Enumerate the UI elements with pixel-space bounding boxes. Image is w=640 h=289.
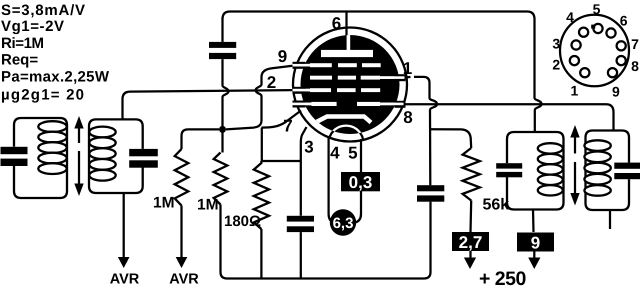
wire: pin 6 anode lead — [345, 12, 347, 41]
svg-text:Ri=1M: Ri=1M — [1, 35, 44, 52]
socket pin 3 hole — [572, 40, 581, 49]
wire: pin 5 heater lead — [355, 139, 361, 223]
wire: C4 to ground rail — [300, 232, 302, 278]
resistor R2 1M — [214, 153, 228, 205]
wire: branch to 56k — [430, 129, 471, 148]
svg-text:4: 4 — [330, 144, 340, 163]
anode plate (white) — [321, 50, 373, 57]
wire: cathode horizontal — [262, 160, 301, 162]
wire: T2 primary bottom to 9 box — [532, 210, 535, 233]
transformer T2 secondary tank box — [586, 131, 630, 211]
svg-text:0,3: 0,3 — [349, 173, 373, 192]
grid g2 row — [310, 76, 332, 80]
socket pin 2 hole — [570, 56, 579, 65]
svg-text:7: 7 — [631, 36, 639, 52]
svg-text:2,7: 2,7 — [459, 233, 483, 252]
pin number labels around tube — [267, 14, 413, 163]
socket pin 1 hole — [580, 68, 589, 77]
wire: T2 secondary output stub — [609, 210, 611, 229]
svg-text:1: 1 — [403, 59, 412, 78]
voltage circle 6,3 — [330, 209, 356, 235]
wire: pin 3 lead — [301, 127, 307, 216]
socket pin 6 hole — [606, 28, 615, 37]
wire: pin 4 heater lead — [329, 138, 334, 223]
wire: continues below C3, hops g1 wire — [223, 59, 229, 152]
junction node dot — [219, 126, 226, 133]
svg-text:Vg1=-2V: Vg1=-2V — [1, 18, 64, 35]
svg-text:S=3,8mA/V: S=3,8mA/V — [1, 2, 85, 19]
svg-text:6: 6 — [620, 13, 628, 29]
socket pin 4 hole — [579, 28, 588, 37]
cathode (white hat) — [312, 117, 372, 125]
wire: branch from dot to R1 — [182, 129, 220, 149]
svg-text:2: 2 — [552, 57, 560, 73]
svg-text:3: 3 — [552, 36, 560, 52]
transformer T1 secondary tank box — [89, 119, 143, 193]
svg-text:180Ω: 180Ω — [224, 213, 261, 230]
grid g3 row — [310, 63, 332, 67]
svg-text:6,3: 6,3 — [333, 215, 354, 232]
wire: pin 1 dashed lead — [406, 76, 415, 79]
svg-text:Req=: Req= — [1, 51, 38, 68]
lead collars through envelope ring — [293, 62, 306, 69]
svg-text:56k: 56k — [483, 197, 510, 214]
wire: bottom ground rail — [227, 202, 431, 279]
svg-text:3: 3 — [304, 138, 313, 157]
resistor R3 180 ohm — [254, 161, 269, 229]
transformer T1 primary tank box — [14, 118, 67, 198]
coil L1 (T1 primary) — [38, 121, 66, 132]
svg-text:4: 4 — [566, 9, 574, 25]
spec text block — [1, 2, 110, 103]
wire: vertical line from top rail (x=222.5) — [221, 18, 223, 42]
heater circle — [329, 126, 364, 161]
capacitor C1 (T1 primary tuning) — [1, 147, 28, 154]
AVR arrow (right) — [176, 257, 188, 268]
svg-text:µg2g1= 20: µg2g1= 20 — [1, 87, 84, 104]
variable coupling arrow (T2) — [574, 136, 576, 154]
svg-text:7: 7 — [283, 117, 292, 136]
coil L2 (T1 secondary) — [89, 127, 115, 138]
socket pin 9 hole — [608, 68, 617, 77]
capacitor C2 (T1 secondary tuning) — [129, 149, 158, 156]
wire: R2 bottom to ground rail — [221, 205, 228, 279]
svg-text:AVR: AVR — [110, 272, 140, 288]
coil L3 (T2 primary) — [538, 143, 563, 153]
socket pin 7 hole — [617, 41, 626, 50]
wire: R1 to AVR arrow — [180, 206, 182, 258]
socket pin 8 hole — [617, 56, 626, 65]
coil L4 (T2 secondary) — [584, 140, 610, 151]
AVR arrow (left) — [118, 257, 130, 268]
tube V1 envelope — [293, 28, 407, 142]
current box 0,3 — [341, 172, 380, 191]
svg-text:5: 5 — [593, 1, 601, 17]
current box 9 — [517, 233, 554, 252]
socket pin 5 hole — [593, 24, 602, 33]
svg-text:1M: 1M — [197, 197, 219, 214]
current box 2,7 — [452, 232, 489, 251]
svg-text:9: 9 — [278, 47, 287, 66]
capacitor C6 (T2 primary tuning) — [496, 163, 522, 168]
svg-text:Pa=max.2,25W: Pa=max.2,25W — [1, 69, 110, 86]
socket index pip — [591, 25, 595, 29]
wire: pin 1 down, hops pin-8 wire — [414, 77, 437, 185]
svg-text:6: 6 — [332, 14, 341, 33]
wire: pin 8 long horizontal to output secondary — [403, 104, 614, 130]
resistor R1 1M — [175, 149, 189, 206]
arrow below 9 — [533, 252, 535, 259]
svg-text:+ 250: + 250 — [479, 268, 526, 289]
svg-text:2: 2 — [267, 73, 276, 92]
arrow below 2,7 — [469, 251, 471, 258]
svg-text:9: 9 — [531, 234, 540, 253]
wire: R3 bottom to ground rail — [260, 229, 262, 279]
capacitor C4 (cathode bypass) — [287, 216, 314, 222]
svg-text:1: 1 — [571, 83, 579, 99]
wire: AVR tap from T1 secondary bottom — [123, 193, 125, 258]
beam/shield row — [311, 102, 336, 106]
wire: top anode rail — [223, 12, 542, 133]
wire: pin 9 stub down, hops g1 wire, to node dot — [226, 65, 303, 130]
svg-text:8: 8 — [631, 58, 639, 74]
grid g1 row — [310, 88, 331, 92]
wire: R4 to 2,7 box — [469, 201, 472, 233]
wire: pin 7 stub joining — [262, 111, 302, 128]
white lead slits crossing ring — [293, 64, 311, 67]
tube socket (bottom view) — [560, 15, 629, 87]
svg-text:5: 5 — [348, 144, 357, 163]
capacitor C3 (to anode rail) — [209, 42, 236, 48]
variable coupling arrow (T1) — [78, 127, 80, 143]
wire: g1 (pin 2) to tank top — [123, 90, 305, 119]
svg-text:9: 9 — [612, 84, 620, 100]
resistor R4 56k — [463, 148, 480, 201]
transformer T2 primary tank box — [507, 132, 564, 210]
wire: branch down to cathode line — [261, 128, 263, 161]
tube V1 body (black disk) — [301, 35, 400, 134]
svg-text:AVR: AVR — [169, 272, 199, 288]
svg-text:1M: 1M — [153, 195, 175, 212]
capacitor C5 (screen decoupling) — [417, 185, 444, 191]
svg-text:8: 8 — [403, 108, 412, 127]
capacitor C7 (T2 secondary tuning) — [614, 163, 640, 169]
